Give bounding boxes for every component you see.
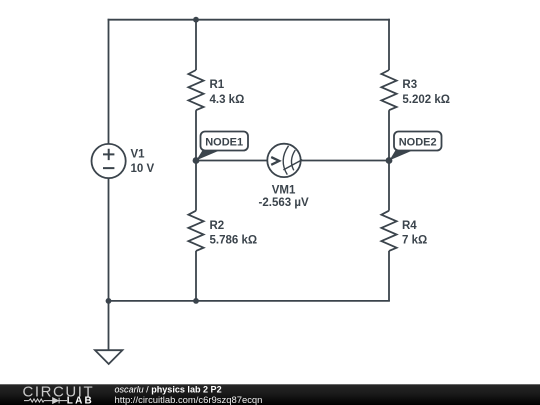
- value 10 V: [131, 163, 155, 175]
- label R2: [210, 220, 225, 232]
- wire middle horizontal right (voltmeter to NODE2): [301, 160, 389, 162]
- svg-text:-2.563 µV: -2.563 µV: [259, 197, 309, 209]
- svg-text:5.786 kΩ: 5.786 kΩ: [210, 234, 258, 246]
- junction dot top middle: [193, 17, 199, 23]
- resistor R1: [188, 70, 203, 110]
- voltmeter VM1: [267, 144, 302, 177]
- resistor R2: [188, 211, 203, 251]
- wire right vertical mid: [388, 110, 390, 211]
- svg-text:R1: R1: [210, 79, 225, 91]
- wire right vertical top: [388, 19, 390, 70]
- wire left vertical upper: [108, 19, 110, 144]
- wire right vertical bottom: [388, 251, 390, 301]
- wire left vertical lower: [108, 178, 110, 301]
- junction dot bottom middle: [193, 298, 199, 304]
- wire middle vertical bottom: [195, 251, 197, 301]
- CircuitLab logo schematic squiggle (wire, resistor, diode): [24, 398, 67, 404]
- svg-text:R4: R4: [402, 220, 417, 232]
- svg-text:R2: R2: [210, 220, 225, 232]
- wire top horizontal: [108, 19, 390, 21]
- junction dot NODE1: [193, 157, 200, 164]
- svg-text:NODE1: NODE1: [205, 137, 243, 149]
- CircuitLab logo text LAB: [67, 396, 94, 405]
- svg-text:5.202 kΩ: 5.202 kΩ: [402, 94, 450, 106]
- value 5.202 kOhm: [402, 94, 450, 106]
- wire ground stem: [108, 301, 110, 350]
- svg-text:V1: V1: [131, 149, 146, 161]
- label VM1: [272, 185, 296, 197]
- wire middle vertical top: [195, 20, 197, 70]
- svg-text:4.3 kΩ: 4.3 kΩ: [210, 94, 245, 106]
- svg-text:oscarlu / physics lab 2 P2: oscarlu / physics lab 2 P2: [115, 385, 222, 395]
- junction dot bottom left: [106, 298, 112, 304]
- svg-text:7 kΩ: 7 kΩ: [402, 234, 427, 246]
- svg-text:VM1: VM1: [272, 185, 296, 197]
- resistor R3: [381, 70, 396, 110]
- svg-text:LAB: LAB: [67, 396, 94, 405]
- value 5.786 kOhm: [210, 234, 258, 246]
- svg-text:http://circuitlab.com/c6r9szq8: http://circuitlab.com/c6r9szq87ecqn: [115, 395, 263, 405]
- resistor R4: [381, 211, 396, 251]
- value 7 kOhm: [402, 234, 427, 246]
- junction dot NODE2: [386, 157, 393, 164]
- node NODE2: [389, 132, 441, 161]
- label R1: [210, 79, 225, 91]
- footer bar: [0, 384, 540, 405]
- wire bottom horizontal: [108, 300, 390, 302]
- svg-text:R3: R3: [402, 79, 417, 91]
- footer url line: [115, 395, 263, 405]
- label R3: [402, 79, 417, 91]
- value 4.3 kOhm: [210, 94, 245, 106]
- value -2.563 uV: [259, 197, 309, 209]
- ground: [95, 350, 122, 364]
- svg-text:10 V: 10 V: [131, 163, 155, 175]
- voltage source V1: [92, 144, 126, 178]
- svg-text:NODE2: NODE2: [399, 137, 437, 149]
- node NODE1: [196, 132, 248, 161]
- CircuitLab logo text CIRCUIT: [23, 383, 95, 400]
- wire middle vertical mid: [195, 110, 197, 211]
- label R4: [402, 220, 417, 232]
- wire middle horizontal left (NODE1 to voltmeter): [196, 160, 267, 162]
- label V1: [131, 149, 146, 161]
- footer title line: oscarlu / physics lab 2 P2: [115, 385, 222, 395]
